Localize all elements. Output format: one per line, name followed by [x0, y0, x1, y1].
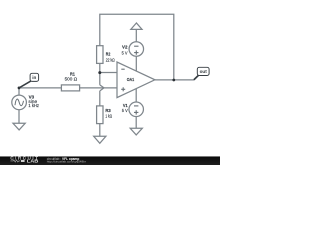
- wire: node A to op-amp minus input: [100, 72, 117, 74]
- svg-text:V2: V2: [122, 45, 128, 50]
- ground under R3: [94, 136, 106, 143]
- resistor R2: [97, 46, 103, 64]
- V3 sine waveform glyph: [15, 99, 24, 106]
- wire: V1 bottom to ground: [135, 117, 137, 129]
- wire: main input horizontal from V3 node to R1: [19, 87, 61, 89]
- wire: R2 bottom to node A and down to hop: [99, 63, 101, 85]
- flag out: [194, 75, 199, 80]
- wire: output from op-amp apex to out flag: [155, 79, 194, 81]
- footer bar: [0, 156, 220, 165]
- wire: V2 stem arrow to circle: [135, 29, 137, 42]
- svg-text:R3: R3: [105, 108, 111, 113]
- junction node A: [98, 71, 101, 74]
- svg-text:OA1: OA1: [127, 77, 135, 82]
- svg-text:500 Ω: 500 Ω: [65, 76, 78, 81]
- svg-text:22 kΩ: 22 kΩ: [106, 57, 115, 62]
- wire: op-amp bottom edge to V1 top: [135, 89, 137, 103]
- ground under V1: [130, 128, 142, 135]
- wire: R1 to op-amp plus input: [80, 87, 117, 89]
- wire: V2 bottom to op-amp top edge: [135, 56, 137, 71]
- flag in: [19, 81, 31, 88]
- junction node at V3/in: [18, 87, 21, 90]
- wire: V3 top riser: [18, 88, 20, 95]
- svg-text:out: out: [200, 69, 208, 74]
- svg-text:http://circuitlab.com/cyq548br: http://circuitlab.com/cyq548br: [47, 160, 86, 164]
- V2 polarity marks: [134, 46, 138, 55]
- resistor R1: [61, 85, 79, 91]
- op-amp inverting input mark -: [121, 68, 124, 70]
- wire: V3 bottom to ground: [18, 110, 20, 124]
- wire hop over horizontal wire: [100, 85, 104, 91]
- voltage source V3 (sine): [12, 95, 27, 110]
- svg-text:R2: R2: [106, 52, 111, 57]
- resistor R3: [97, 106, 103, 124]
- svg-text:LAB: LAB: [27, 159, 39, 164]
- junction node at output: [172, 79, 175, 82]
- power arrow above V2: [131, 23, 142, 29]
- voltage source V2: [129, 42, 144, 57]
- svg-text:1 kΩ: 1 kΩ: [105, 114, 112, 119]
- wire: R3 bottom to ground: [99, 124, 101, 137]
- op-amp non-inverting input mark +: [121, 87, 125, 91]
- svg-text:in: in: [32, 75, 36, 80]
- ground under V3: [13, 123, 25, 130]
- wire: hop to R3 top: [99, 91, 101, 106]
- V1 polarity marks: [134, 106, 138, 115]
- voltage source V1: [129, 102, 144, 117]
- svg-text:1 kHz: 1 kHz: [28, 103, 39, 108]
- svg-text:5 V: 5 V: [122, 108, 128, 113]
- svg-text:5 V: 5 V: [122, 50, 128, 55]
- wire: feedback loop from output node up and over to R2 top: [100, 14, 174, 80]
- op-amp OA1: [117, 62, 155, 98]
